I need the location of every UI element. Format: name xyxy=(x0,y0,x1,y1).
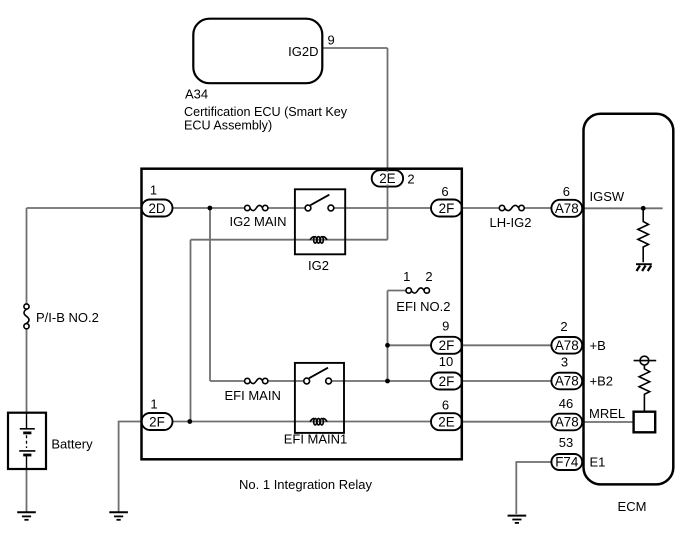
svg-text:LH-IG2: LH-IG2 xyxy=(490,215,532,230)
relay box No.1 Integration Relay xyxy=(142,169,462,460)
wire pin9 row xyxy=(388,344,432,346)
wire 2F pin9 to A78 pin2 xyxy=(461,344,551,346)
connector A78 pin3 xyxy=(551,373,582,390)
wire 2F pin10 to A78 pin3 xyxy=(461,380,551,382)
svg-text:2E: 2E xyxy=(379,171,395,186)
ECM box xyxy=(584,114,674,485)
wire coil EFI MAIN1 row xyxy=(172,421,431,423)
ground E1 xyxy=(508,516,527,523)
fuse P/I-B NO.2 xyxy=(24,304,29,329)
svg-text:2: 2 xyxy=(425,269,432,284)
junction on 2D wire xyxy=(208,206,213,211)
svg-text:Battery: Battery xyxy=(51,437,93,452)
node B+ circle xyxy=(634,356,657,365)
svg-text:6: 6 xyxy=(563,184,570,199)
svg-text:IG2D: IG2D xyxy=(288,44,318,59)
connector 2E pin6 xyxy=(431,413,462,430)
junction on pin10 wire xyxy=(385,379,390,384)
svg-text:+B: +B xyxy=(590,338,606,353)
wire 2F pin1 to ground xyxy=(119,422,142,512)
svg-text:P/I-B NO.2: P/I-B NO.2 xyxy=(36,310,99,325)
relay IG2 switch contacts xyxy=(305,195,334,211)
connector A78 pin46 xyxy=(551,414,582,431)
fuse LH-IG2 xyxy=(499,205,524,210)
svg-text:3: 3 xyxy=(561,355,568,370)
svg-text:1: 1 xyxy=(403,269,410,284)
wire to EFI MAIN fuse xyxy=(210,380,245,382)
svg-text:EFI NO.2: EFI NO.2 xyxy=(396,299,450,314)
svg-text:53: 53 xyxy=(559,435,573,450)
connector F74 pin53 xyxy=(551,454,582,470)
svg-text:2E: 2E xyxy=(438,415,454,430)
svg-text:ECU Assembly): ECU Assembly) xyxy=(184,119,272,133)
wire to EFI NO.2 fuse xyxy=(388,290,406,292)
wire IG2 coil line xyxy=(191,239,388,241)
connector 2D xyxy=(142,200,173,217)
svg-text:IGSW: IGSW xyxy=(590,189,625,204)
fuse IG2 MAIN xyxy=(245,205,268,210)
wire IG2D down to coil xyxy=(387,48,389,240)
wire battery feed to 2D xyxy=(27,207,143,209)
wire battery vertical upper xyxy=(26,208,28,304)
wire IG2 switch to 2F pin6 xyxy=(334,207,431,209)
connector 2F pin1 xyxy=(142,413,173,430)
svg-text:1: 1 xyxy=(150,397,157,412)
svg-text:10: 10 xyxy=(439,354,453,369)
relay EFI MAIN1 box xyxy=(295,363,344,433)
relay EFI MAIN1 coil xyxy=(310,418,327,425)
connector 2F pin10 xyxy=(431,373,462,390)
battery cell plates xyxy=(19,413,35,469)
wire battery to ground xyxy=(26,469,28,512)
wire 2E pin6 to A78 pin46 xyxy=(461,421,551,423)
wire 2F pin6 to LH-IG2 fuse xyxy=(461,207,499,209)
svg-text:A78: A78 xyxy=(555,415,579,430)
ground relay 2F pin1 xyxy=(109,512,128,520)
wire 2D branch vertical xyxy=(209,208,211,381)
svg-text:No. 1 Integration Relay: No. 1 Integration Relay xyxy=(239,477,372,492)
svg-text:A78: A78 xyxy=(555,201,579,216)
relay EFI MAIN1 switch contacts xyxy=(304,368,332,384)
wire EFI MAIN fuse to relay EFI MAIN1 xyxy=(268,380,304,382)
wire LH-IG2 fuse to A78 pin6 xyxy=(524,207,551,209)
junction on IGSW wire xyxy=(641,206,646,211)
junction on pin9 wire xyxy=(385,343,390,348)
svg-text:6: 6 xyxy=(442,398,449,413)
svg-text:A78: A78 xyxy=(555,338,579,353)
ground battery xyxy=(17,512,36,520)
wire 2D to IG2 MAIN fuse xyxy=(172,207,245,209)
svg-text:2F: 2F xyxy=(439,374,455,389)
svg-text:MREL: MREL xyxy=(589,406,625,421)
resistor IGSW pull-down xyxy=(638,208,649,262)
wire E1 to ground xyxy=(516,462,551,514)
svg-text:2D: 2D xyxy=(148,201,165,216)
svg-text:2: 2 xyxy=(407,172,414,187)
svg-text:9: 9 xyxy=(328,33,335,48)
wire A34 to vertical xyxy=(322,47,387,49)
battery box xyxy=(8,413,46,469)
svg-text:46: 46 xyxy=(559,396,573,411)
connector 2F pin9 xyxy=(431,337,462,354)
svg-text:2F: 2F xyxy=(439,338,455,353)
junction on 2F pin1 wire xyxy=(187,419,192,424)
wire fuse to battery xyxy=(26,329,28,413)
fuse EFI NO.2 xyxy=(406,288,429,293)
svg-text:A34: A34 xyxy=(185,87,208,102)
connector 2F pin6 xyxy=(431,200,462,217)
connector A78 pin6 xyxy=(551,200,582,217)
connector 2E pin2 xyxy=(372,170,403,186)
svg-text:2F: 2F xyxy=(149,414,165,429)
svg-text:2: 2 xyxy=(560,319,567,334)
wire IGSW inside ECM xyxy=(582,207,663,209)
resistor MREL pull-up xyxy=(639,365,650,412)
ECU A34 box xyxy=(193,19,322,84)
svg-text:F74: F74 xyxy=(555,455,579,470)
MREL driver box xyxy=(634,412,656,433)
svg-text:IG2 MAIN: IG2 MAIN xyxy=(229,214,286,229)
svg-text:Certification ECU (Smart Key: Certification ECU (Smart Key xyxy=(184,105,348,119)
relay IG2 box xyxy=(295,189,345,254)
svg-text:EFI MAIN1: EFI MAIN1 xyxy=(284,432,348,447)
wire through 2E pin2 xyxy=(387,170,389,186)
svg-text:IG2: IG2 xyxy=(308,258,329,273)
svg-text:+B2: +B2 xyxy=(590,374,614,389)
wire EFI NO.2 branch vertical xyxy=(387,291,389,382)
relay IG2 coil xyxy=(310,237,327,244)
wire EFI MAIN1 switch to 2F pin10 xyxy=(332,380,432,382)
svg-text:ECM: ECM xyxy=(618,499,647,514)
svg-text:EFI MAIN: EFI MAIN xyxy=(225,388,281,403)
svg-text:E1: E1 xyxy=(590,455,606,470)
chassis ground IGSW xyxy=(636,264,652,271)
fuse EFI MAIN xyxy=(245,378,268,383)
svg-text:1: 1 xyxy=(150,183,157,198)
wire 2F pin1 branch vertical xyxy=(190,240,192,422)
svg-text:2F: 2F xyxy=(439,201,455,216)
wire MREL inside ECM xyxy=(582,421,634,423)
svg-text:9: 9 xyxy=(442,319,449,334)
svg-text:6: 6 xyxy=(441,184,448,199)
wire IG2 MAIN fuse to relay IG2 xyxy=(268,207,305,209)
connector A78 pin2 xyxy=(551,337,582,354)
svg-text:A78: A78 xyxy=(555,374,579,389)
